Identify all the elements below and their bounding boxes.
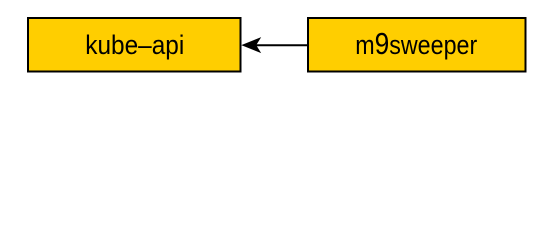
- node m9sweeper box: [308, 18, 526, 72]
- svg-text:m9sweeper: m9sweeper: [355, 27, 477, 61]
- arrowhead pointing left into kube-api: [241, 37, 261, 53]
- svg-text:kube–api: kube–api: [85, 30, 184, 60]
- node kube-api box: [28, 18, 241, 72]
- wire from m9sweeper to kube-api: [255, 44, 307, 46]
